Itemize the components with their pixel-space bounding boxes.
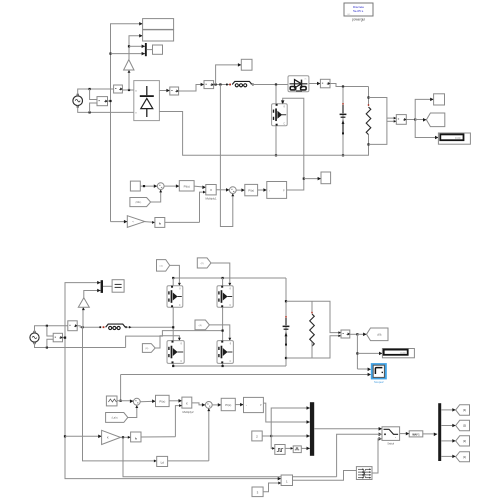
node — [81, 326, 83, 328]
wire — [141, 436, 175, 438]
svg-text:PI(s): PI(s) — [225, 403, 231, 407]
PI controller PI3 — [156, 395, 170, 406]
node — [172, 365, 174, 367]
wire — [236, 189, 245, 191]
powergui block — [344, 3, 373, 22]
node — [46, 346, 48, 348]
wire — [285, 447, 293, 449]
multiport switch SW1 — [382, 427, 400, 446]
wire — [35, 342, 126, 347]
wire — [117, 400, 133, 402]
constant block K2 — [252, 431, 262, 441]
node — [109, 53, 111, 55]
node — [367, 143, 369, 145]
wire — [47, 326, 53, 336]
wire to scope — [304, 178, 321, 180]
goto tag o2 — [456, 420, 470, 430]
svg-text:h: h — [159, 222, 161, 226]
goto tag Vdc — [415, 119, 426, 121]
IGBT Q4 — [167, 341, 184, 364]
svg-text:5e-05 s.: 5e-05 s. — [353, 9, 364, 13]
wire — [78, 106, 134, 113]
wire Im2 vertical lower — [83, 326, 157, 461]
node — [285, 300, 287, 302]
wire DC rail bottom — [159, 112, 369, 156]
boost IGBT Q1 — [272, 104, 288, 126]
wire down from K out — [123, 437, 337, 477]
wire — [90, 89, 97, 100]
wire const3 — [263, 483, 281, 492]
sum S1 — [157, 183, 164, 190]
unit delay Z2 — [293, 446, 301, 453]
svg-text:›: › — [246, 403, 247, 407]
wire Vdc out — [406, 119, 415, 121]
wire to gain K — [65, 435, 102, 437]
sum S4 — [205, 402, 212, 409]
wire Im2 vertical — [82, 307, 84, 326]
wire — [63, 337, 66, 339]
node — [109, 100, 111, 102]
wire — [121, 436, 131, 438]
wire demux out4 — [441, 455, 456, 457]
wire down to sample block — [271, 436, 275, 448]
current measurement Im1 — [114, 85, 123, 93]
svg-text:0.00: 0.00 — [400, 351, 406, 355]
wire mux3 out — [103, 285, 112, 287]
wire Vm2 vertical — [65, 283, 281, 479]
wire gate1 — [170, 265, 180, 285]
node — [219, 83, 221, 85]
wire leg1 upper — [172, 278, 174, 286]
wire — [165, 221, 200, 223]
svg-text:C: C — [179, 304, 181, 307]
from tag Vdc ref — [130, 198, 151, 207]
svg-text:C: C — [230, 360, 232, 363]
wire switch in2 — [379, 433, 382, 437]
rectifier measurement M1 — [170, 87, 179, 95]
wire leg1 middle — [172, 307, 174, 340]
node — [120, 400, 122, 402]
gain comparator G2 — [127, 216, 144, 228]
inductor L1 — [226, 81, 254, 86]
wire — [164, 185, 179, 187]
wire — [194, 186, 206, 187]
wire — [77, 326, 99, 327]
scope box S1a — [143, 19, 174, 30]
wire PWM2 out — [263, 403, 310, 422]
goto tag VI — [367, 328, 389, 341]
wire — [235, 404, 243, 406]
scope box S1c — [153, 45, 163, 54]
resistor R1 — [366, 87, 371, 156]
node — [89, 111, 91, 113]
svg-text:0.00: 0.00 — [455, 136, 461, 140]
wire IGBT leg — [275, 85, 277, 104]
wire demux out3 — [441, 440, 456, 442]
wire to mux in1 — [129, 45, 145, 47]
svg-text:Scope2: Scope2 — [374, 380, 384, 384]
wire gate2 — [211, 263, 230, 286]
wire — [140, 185, 157, 187]
wire to scope box — [216, 65, 242, 85]
measurement M3 — [320, 79, 330, 88]
node — [128, 45, 130, 47]
IGBT Q5 — [217, 341, 233, 364]
wire sense bottom — [312, 336, 341, 358]
svg-text:h: h — [135, 436, 137, 440]
node — [128, 89, 130, 91]
PI controller PI4 — [221, 398, 235, 410]
voltage measurement Vdc — [396, 115, 406, 125]
wire — [212, 404, 221, 406]
rate transition RT1 — [409, 431, 423, 437]
wire — [258, 189, 267, 191]
svg-text:PI(s): PI(s) — [248, 189, 254, 193]
mux bar M2 — [310, 402, 314, 456]
current measurement M2 — [204, 81, 214, 89]
node — [172, 326, 174, 328]
svg-text:[4]: [4] — [463, 409, 466, 412]
PI controller PI2 — [245, 184, 258, 195]
from tag g3 — [142, 344, 155, 353]
wire from tag to sum — [151, 190, 161, 202]
node — [356, 352, 358, 354]
wire — [35, 326, 68, 333]
gain triangle G1 — [124, 60, 134, 70]
zero-order hold Z1 — [275, 445, 285, 455]
wire to scope — [415, 99, 433, 119]
svg-text:C: C — [180, 360, 182, 363]
node — [303, 178, 305, 180]
wire — [140, 400, 155, 403]
from tag La — [106, 413, 128, 423]
svg-text:Multiply1: Multiply1 — [205, 196, 216, 200]
node — [46, 325, 48, 327]
svg-text:[1]: [1] — [463, 456, 466, 459]
goto tag o1 — [456, 405, 470, 416]
wire feedback Ld — [208, 408, 210, 461]
wire — [169, 400, 182, 402]
svg-text:*: * — [395, 436, 396, 440]
wire from Im1 up to gain — [128, 70, 130, 90]
display D2 — [382, 349, 414, 358]
multiply block Multiply2 — [182, 397, 194, 414]
node — [64, 337, 66, 339]
resistor R2 — [286, 301, 314, 358]
svg-text:Ld: Ld — [161, 461, 165, 465]
wire — [108, 100, 111, 102]
svg-text:powergui: powergui — [352, 18, 365, 22]
capacitor C2 — [283, 278, 290, 366]
AC source V2 — [30, 331, 39, 344]
voltage measurement Vm1 — [97, 97, 108, 106]
goto tag o4 — [456, 452, 470, 462]
wire — [127, 326, 174, 328]
wire mux2 out — [314, 428, 382, 430]
scope box S1b — [143, 30, 174, 41]
hit block H1 — [155, 218, 165, 228]
signal router X1 — [356, 467, 372, 480]
multiply block Multiply1 — [205, 185, 216, 201]
svg-text:›: › — [269, 188, 270, 192]
node — [172, 277, 174, 279]
gain triangle G3 — [78, 298, 89, 308]
from tag g4 — [195, 320, 209, 330]
svg-text:Switch: Switch — [387, 443, 394, 446]
wire Ld out — [168, 460, 209, 462]
wire leg1 lower — [172, 363, 174, 366]
wire down — [356, 334, 358, 369]
inductor L2 — [99, 324, 127, 329]
wire gain3 up — [84, 291, 101, 298]
wire — [179, 85, 204, 92]
wire — [47, 339, 53, 347]
svg-text:[2]: [2] — [463, 440, 466, 443]
gain block K1 — [102, 430, 121, 444]
node — [342, 154, 344, 156]
node — [275, 83, 277, 85]
wire Vinv out — [350, 333, 358, 335]
wire to display — [415, 120, 438, 138]
wire to mux in4 — [301, 447, 310, 449]
wire — [251, 84, 288, 86]
mux bar M1 — [145, 43, 147, 56]
H-bridge bottom rail — [173, 365, 286, 367]
wire to mux in3 — [271, 435, 310, 437]
node — [414, 118, 416, 120]
wire up to switch in2 — [337, 434, 382, 477]
wire multiply2 in2 — [175, 406, 182, 437]
wire mux out — [147, 49, 153, 51]
wire PWM out — [287, 179, 304, 190]
wire gain up — [129, 36, 143, 60]
node — [270, 435, 272, 437]
wire B1 out — [293, 471, 357, 481]
wire tag to sum — [128, 405, 137, 417]
scope Scope2 selected — [371, 363, 387, 384]
wire to scope in1 — [357, 368, 368, 370]
voltage measurement Vinv — [341, 330, 350, 338]
wire DC rail top — [330, 84, 369, 87]
scope box S3 — [434, 94, 445, 105]
wire to mux in2 — [111, 53, 146, 55]
wire feedback inductor current — [220, 85, 232, 227]
wire long scope in2 — [121, 374, 369, 376]
wire — [216, 189, 229, 191]
AC source V1 — [73, 94, 83, 108]
mux bar M3 — [101, 280, 103, 293]
inductance block Ld — [157, 456, 168, 466]
svg-text:WAV 1: WAV 1 — [412, 434, 420, 437]
wire demux out1 — [441, 409, 456, 411]
wire sense top — [312, 301, 341, 332]
wire into gain — [111, 221, 128, 223]
wire router out — [372, 439, 382, 473]
wire — [122, 89, 133, 91]
wire leg2 lower — [222, 363, 224, 366]
wire multiply in2 — [200, 192, 206, 222]
wire sense stubs — [387, 117, 396, 119]
display D1 — [438, 133, 470, 144]
scope box S4 — [321, 172, 331, 184]
wire gate3 — [155, 336, 179, 348]
wire return jog — [126, 331, 223, 348]
voltage measurement Vm2 — [53, 333, 63, 342]
svg-text:Multiply2: Multiply2 — [182, 410, 193, 414]
boost diode D1 — [288, 76, 309, 92]
sum S3 — [133, 398, 140, 405]
scope box S2 — [241, 59, 252, 70]
sum S2 — [229, 187, 236, 194]
wire gate4 — [209, 325, 229, 341]
node — [215, 83, 217, 85]
constant block C2ref — [106, 396, 117, 406]
demux bar DM1 — [438, 403, 441, 461]
sum block B1 — [281, 475, 292, 486]
diode rectifier bridge U1 — [134, 81, 160, 121]
node — [275, 154, 277, 156]
wire ref vertical — [120, 375, 122, 401]
wire resistor sense loop — [369, 98, 387, 145]
node — [222, 330, 224, 332]
svg-text:K: K — [107, 436, 109, 440]
node — [143, 185, 145, 187]
node — [64, 337, 66, 339]
wire — [78, 89, 114, 96]
from tag g1 — [157, 260, 170, 272]
svg-text:I/O: I/O — [348, 14, 351, 16]
wire — [192, 403, 206, 405]
wire gate loop — [283, 98, 304, 178]
wire — [90, 103, 97, 112]
wire to display2 — [357, 352, 382, 354]
wire — [145, 221, 155, 224]
capacitor C1 — [340, 87, 347, 156]
IGBT Q3 — [217, 286, 233, 308]
goto tag o3 — [456, 436, 470, 446]
wire — [400, 433, 410, 435]
wire long Vm1 vertical — [111, 24, 143, 222]
svg-text:PI(s): PI(s) — [184, 184, 190, 188]
wire leg2 middle — [222, 307, 224, 340]
wire to goto tag — [357, 333, 366, 335]
svg-text:C: C — [229, 304, 231, 307]
wire — [309, 83, 321, 85]
scope Scope3 — [112, 280, 124, 293]
svg-text:[3]: [3] — [463, 425, 466, 428]
wire rectifier out+ — [159, 90, 169, 92]
IGBT Q2 — [167, 286, 183, 308]
hit block H2 — [131, 432, 141, 442]
constant block C1 — [130, 181, 140, 191]
PWM generator P1 — [267, 182, 287, 199]
constant block K3 — [252, 487, 263, 497]
from tag g2 — [197, 258, 211, 268]
wire demux out2 — [441, 425, 456, 427]
wire to mux in1 — [271, 408, 310, 436]
node — [89, 88, 91, 90]
wire IGBT emitter — [275, 126, 277, 156]
wire const2 — [262, 435, 271, 437]
node — [367, 96, 369, 98]
wire boost node — [214, 84, 231, 86]
node — [356, 333, 358, 335]
wire switch in3 — [379, 437, 382, 441]
current measurement Im2 — [68, 321, 78, 331]
svg-text:C: C — [283, 123, 285, 126]
wire to demux — [423, 433, 437, 435]
PI controller PI1 — [179, 181, 194, 191]
wire leg2 upper — [222, 278, 224, 286]
node — [342, 85, 344, 87]
node — [122, 436, 124, 438]
PWM generator P2 — [244, 397, 264, 412]
H-bridge top rail — [173, 277, 286, 279]
svg-text:PI(s): PI(s) — [159, 399, 165, 403]
